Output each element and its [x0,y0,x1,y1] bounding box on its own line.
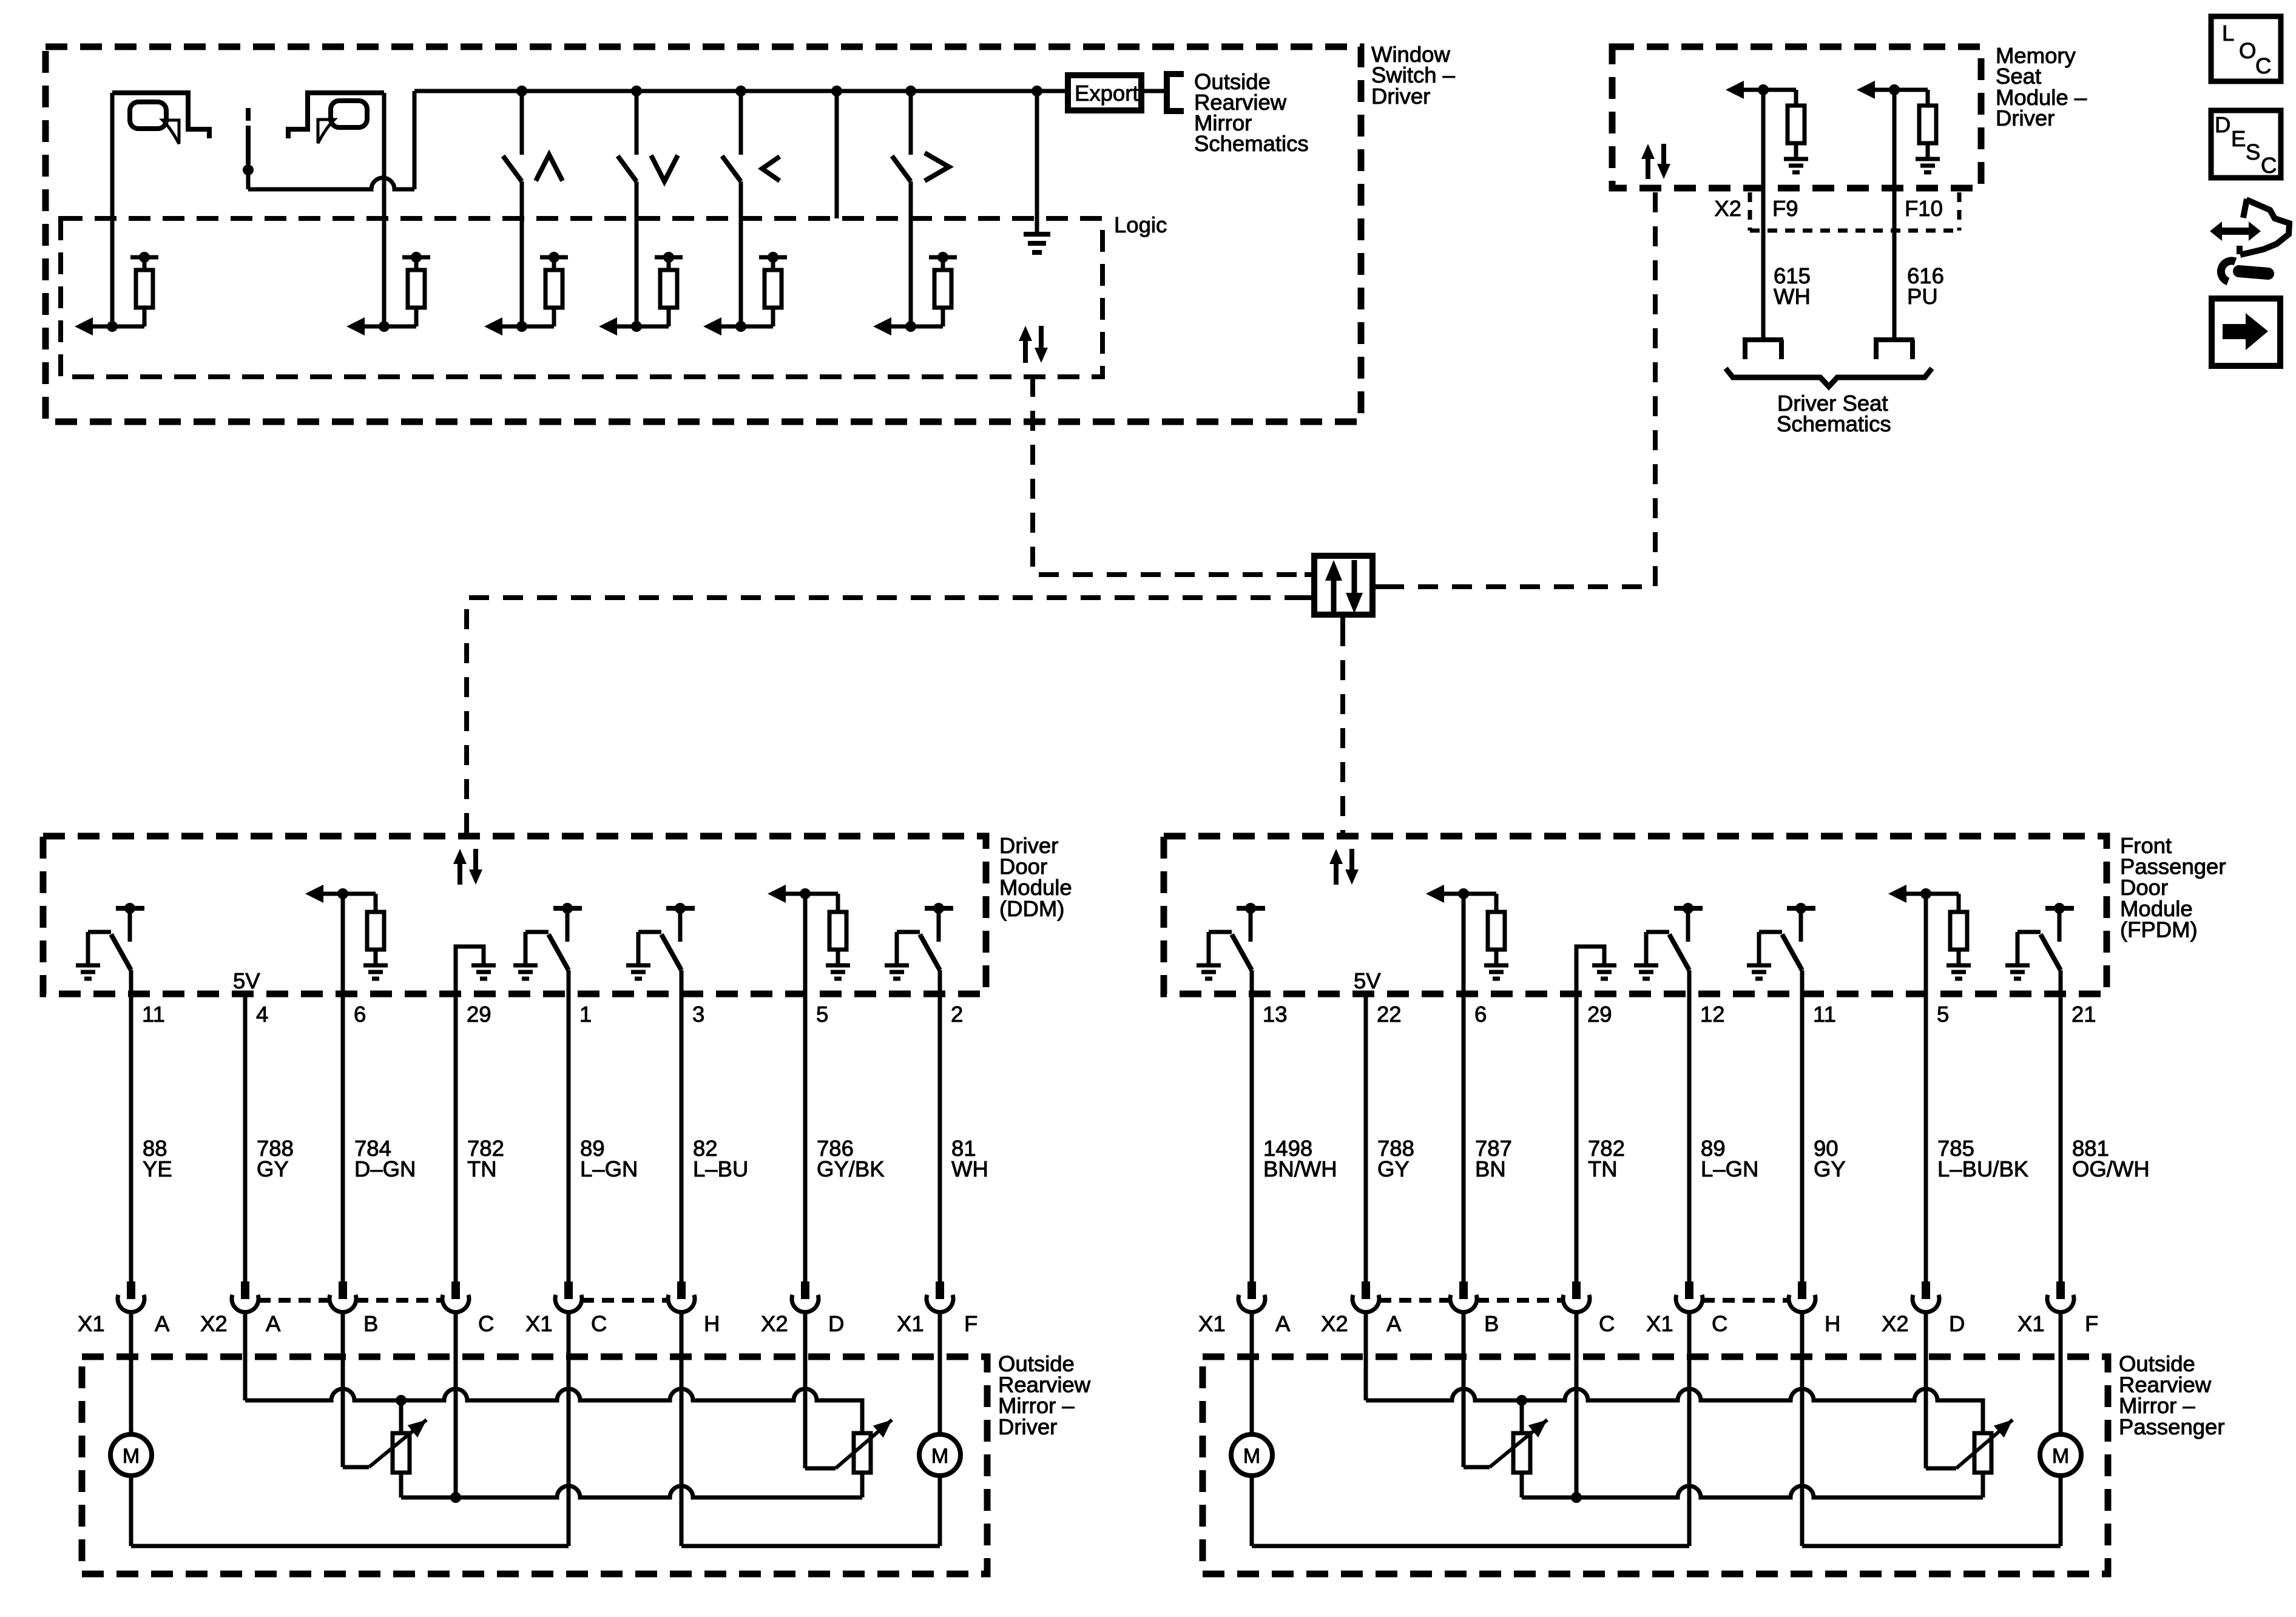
wire mirror M1 left drop [110,93,115,326]
wire A to motor left passenger [1250,1312,1254,1436]
icon hand outline [2240,199,2289,255]
potentiometer right driver wiper arrow [836,1420,892,1468]
wire SW-UP upper [520,91,524,155]
label pin 5 FPDM [1937,1002,1949,1027]
ground FPDM pin 12 [1634,965,1658,979]
arrow out SW-UP [484,317,522,336]
resistor R FPDM pin 6 [1488,912,1505,950]
svg-text:X1: X1 [1198,1311,1226,1336]
label wire 81 WH [951,1136,988,1181]
junction dot SW-LEFT [735,321,746,332]
resistor R-SW-DOWN T-bar [655,252,683,270]
wire ground drop [1035,91,1039,234]
label connector X2 [200,1311,228,1336]
switch DDM pin 1 ground leg [525,932,549,965]
connector arrows Memory Seat [1641,144,1670,179]
junction dot bus SW-RIGHT [905,86,916,96]
resistor R-SW-DOWN body [660,270,677,308]
wire pot-left bottom lead driver [399,1473,403,1497]
svg-text:Driver: Driver [998,1414,1057,1439]
label Outside Rearview Mirror - Passenger [2119,1351,2225,1439]
svg-text:4: 4 [256,1002,268,1027]
connector cup FPDM x2598 [1563,1281,1590,1312]
wire F9-wire to resistor [1763,90,1796,106]
svg-text:X2: X2 [1714,196,1741,221]
junction dot F9-wire [1758,84,1769,95]
ground FPDM pin 29 [1592,965,1616,979]
wire DDM pin 3 [680,970,684,1281]
icon next-page arrow [2223,313,2268,350]
switch SEL blade stub [246,108,251,121]
connector cup FPDM x2251 [1352,1281,1379,1312]
resistor R DDM pin 6 [367,912,384,950]
label Logic [1114,212,1167,237]
icon wrench [2221,261,2268,282]
label Outside Rearview Mirror Schematics [1194,69,1309,156]
wire DDM pin 5 to resistor [805,894,838,912]
label wire 786 GY/BK [817,1136,885,1181]
svg-text:Schematics: Schematics [1194,131,1309,156]
label connector A [1386,1311,1402,1336]
icon LOC letters [2222,21,2271,78]
wire pot-right bottom lead passenger [1981,1473,1985,1497]
label wire 788 GY [1377,1136,1414,1181]
wire H driver [681,1312,940,1546]
junction dot bus stub [831,86,842,96]
svg-text:F: F [2085,1311,2098,1336]
wire mirror M2 right drop [382,93,387,326]
wire F10-wire vertical [1893,90,1897,340]
svg-text:X1: X1 [78,1311,105,1336]
label connector A [266,1311,281,1336]
label wire 89 L–GN [580,1136,638,1181]
wire DDM pin 11 [129,970,133,1281]
wire R-F10-wire to ground [1926,143,1930,159]
wire SW-LEFT upper [739,91,743,155]
resistor R DDM pin 5 [829,912,846,950]
wire DDM pin 1 [567,970,571,1281]
module box: Outside Rearview Mirror - Passenger [1203,1357,2108,1574]
ground FPDM pin 13 [1197,965,1221,979]
wire R-F9-wire to ground [1794,143,1798,159]
wire FPDM pin 13 [1250,970,1254,1281]
ground DDM pin 2 [885,965,909,979]
switch FPDM pin 12 contact [1674,903,1703,942]
svg-text:3: 3 [692,1002,704,1027]
wire FPDM pin 6 to resistor [1464,894,1496,912]
svg-text:D: D [828,1311,844,1336]
resistor R-mirror-M1 node body [136,270,153,308]
ground DDM pin 6 [363,965,388,979]
arrow out DDM pin 5 [768,885,805,903]
wire H passenger [1802,1312,2061,1546]
svg-text:12: 12 [1700,1002,1725,1027]
wire resistor R-SW-LEFT to node [741,308,773,326]
label connector B [363,1311,378,1336]
connector splice arrows [1325,560,1363,613]
wire motor right return driver [938,1475,942,1546]
svg-text:A: A [1275,1311,1291,1336]
wire C passenger [1575,1312,1579,1497]
connector link DDM X2 group [258,1298,442,1303]
wire dashed Logic to splice box [1033,377,1305,575]
label F9 [1772,196,1798,221]
connector arrows Logic [1019,326,1048,363]
wire A2 passenger [1364,1312,1368,1400]
label pin 5 DDM [816,1002,828,1027]
potentiometer left driver wiper arrow [369,1420,427,1467]
label connector X1 [1198,1311,1226,1336]
label wire 782 TN [1588,1136,1625,1181]
icon DESC box [2211,110,2281,178]
junction dot FPDM pin 5 [1920,888,1931,899]
switch SW-UP blade [503,156,522,181]
label connector X2 [761,1311,788,1336]
label wire 785 L–BU/BK [1937,1136,2028,1181]
svg-text:Driver: Driver [1371,84,1430,109]
switch DDM pin 1 blade [549,934,569,970]
switch DDM pin 11 blade [111,934,131,970]
svg-text:YE: YE [143,1156,172,1181]
module box: Driver Door Module (DDM) [43,836,986,994]
svg-text:X2: X2 [761,1311,788,1336]
label connector X1 [525,1311,553,1336]
connector cup FPDM x2970 [1789,1281,1815,1312]
connector arrows Driver Door Module (DDM) [453,849,482,885]
junction dot bus SW-UP [516,86,527,96]
switch DDM pin 2 blade [920,934,940,970]
mirror icon M1 glass [130,102,166,129]
label wire 616 PU [1907,263,1944,309]
wire resistor R-SW-UP to node [522,308,554,326]
label 5V FPDM pin 22 [1354,968,1381,993]
svg-text:5V: 5V [1354,968,1381,993]
svg-text:X2: X2 [1321,1311,1348,1336]
junction dot FPDM pin 6 [1458,888,1469,899]
svg-text:Logic: Logic [1114,212,1167,237]
svg-text:6: 6 [354,1002,366,1027]
ground FPDM pin 5 [1947,965,1971,979]
label wire 788 GY [257,1136,294,1181]
switch SW-LEFT blade [722,156,741,181]
svg-text:22: 22 [1377,1002,1402,1027]
label X2 [1714,196,1741,221]
label Outside Rearview Mirror - Driver [998,1351,1091,1439]
svg-text:H: H [1825,1311,1840,1336]
ground G-F10-wire [1916,159,1940,172]
arrow out SW-LEFT [703,317,741,336]
module box: Window Switch - Driver [46,47,1361,422]
label pin 29 DDM [467,1002,491,1027]
label pin 6 DDM [354,1002,366,1027]
svg-text:GY: GY [1814,1156,1846,1181]
wire FPDM pin 5 to resistor [1926,894,1959,912]
wire motor right return passenger [2059,1475,2063,1546]
label wire 90 GY [1814,1136,1846,1181]
resistor R-SW-LEFT T-bar [759,252,787,270]
connector cup DDM x1549 [927,1281,953,1312]
icon DESC letters [2215,112,2277,178]
potentiometer right driver body [854,1433,871,1473]
wire SEL feed riser [413,91,417,189]
label connector F [964,1311,977,1336]
svg-text:D–GN: D–GN [354,1156,416,1181]
svg-text:X1: X1 [897,1311,924,1336]
label pin 4 DDM [256,1002,268,1027]
switch SW-RIGHT blade [892,156,911,181]
svg-text:C: C [2255,53,2271,78]
wire R DDM pin 6 to ground [374,950,378,965]
mirror icon M2 (right mirror) frame [288,93,384,138]
label connector H [1825,1311,1840,1336]
ground FPDM pin 11 [1747,965,1771,979]
symbol down chevron [651,155,678,181]
wire pot-left bottom lead passenger [1520,1473,1524,1497]
wire F9-wire vertical [1761,90,1766,340]
wire stub to logic [835,91,839,218]
connector link DDM X1 group [582,1298,668,1303]
mirror icon M1 (left mirror) frame [112,93,209,138]
wire DDM pin 6 [341,894,345,1281]
potentiometer right passenger wiper arrow [1956,1420,2013,1468]
switch DDM pin 3 ground leg [638,932,661,965]
wire DDM pin 29 loop [456,947,484,994]
wire FPDM pin 29 [1575,994,1579,1281]
wire R FPDM pin 5 to ground [1957,950,1961,965]
wire SW-UP lower [520,181,524,326]
wire dashed splice to FPDM [1340,626,1345,836]
svg-text:29: 29 [467,1002,491,1027]
potentiometer left passenger wiper arrow [1490,1420,1547,1467]
wire R DDM pin 5 to ground [836,950,840,965]
wire F to motor right driver [938,1312,942,1436]
svg-text:(DDM): (DDM) [999,896,1064,921]
svg-text:X1: X1 [1646,1311,1673,1336]
terminal F10-wire [1874,340,1914,359]
svg-text:TN: TN [467,1156,497,1181]
svg-text:A: A [266,1311,281,1336]
ground DDM pin 5 [826,965,850,979]
resistor R-SW-UP body [545,270,562,308]
module box: Outside Rearview Mirror - Driver [82,1357,987,1574]
wire D driver [805,1312,836,1468]
ground DDM pin 29 [471,965,496,979]
svg-text:A: A [155,1311,170,1336]
ground DDM pin 11 [76,965,100,979]
svg-text:C: C [478,1311,494,1336]
label Memory Seat Module - Driver [1996,43,2087,130]
connector cup FPDM x2063 [1238,1281,1265,1312]
connector arrows Front Passenger Door Module (FPDM) [1329,849,1359,885]
junction dot mirror-M1 node [107,321,118,332]
resistor R-SW-RIGHT body [934,270,951,308]
svg-text:5: 5 [816,1002,828,1027]
wire DDM pin 5 [803,894,808,1281]
switch DDM pin 11 contact [116,903,144,942]
svg-text:S: S [2246,140,2260,164]
junction dot DDM pin 6 [337,888,348,899]
svg-text:L–BU/BK: L–BU/BK [1937,1156,2028,1181]
label pin 11 DDM [142,1002,165,1027]
switch FPDM pin 21 contact [2045,903,2074,942]
wire resistor R-SW-DOWN to node [636,308,669,326]
svg-text:Passenger: Passenger [2119,1414,2225,1439]
switch DDM pin 2 contact [925,903,953,942]
wire F10-wire to resistor [1894,90,1928,106]
wire C2 motor return driver [567,1312,571,1546]
symbol right chevron [925,153,949,181]
junction dot C driver [450,1492,461,1503]
wire resistor R-SW-RIGHT to node [911,308,943,326]
wire FPDM pin 29 loop [1576,947,1604,994]
wire SEL feed with hop over M2 wire [248,178,414,189]
svg-text:13: 13 [1263,1002,1288,1027]
motor M-left passenger [1231,1434,1272,1476]
label pin 13 FPDM [1263,1002,1288,1027]
svg-text:GY: GY [257,1156,289,1181]
svg-text:C: C [591,1311,607,1336]
wire R FPDM pin 6 to ground [1494,950,1499,965]
icon next-page arrow box [2212,299,2280,366]
switch FPDM pin 11 blade [1782,934,1802,970]
label F10 [1905,196,1943,221]
wire lower bus passenger [1522,1486,1983,1497]
junction dot SW-DOWN [631,321,642,332]
label wire 881 OG/WH [2072,1136,2150,1181]
svg-text:C: C [1712,1311,1727,1336]
mirror icon M2 glass [331,101,367,127]
connector cup FPDM x3174 [1913,1281,1939,1312]
svg-text:L–BU: L–BU [693,1156,748,1181]
ground FPDM pin 21 [2005,965,2030,979]
symbol left chevron [762,157,780,181]
connector cup DDM x216 [118,1281,144,1312]
ground DDM pin 1 [513,965,538,979]
junction dot DDM pin 5 [800,888,811,899]
block Export box [1068,75,1141,110]
wire DDM pin 4 [243,994,248,1281]
resistor R-F10-wire body [1919,106,1936,143]
junction dot bus SW-DOWN [631,86,642,96]
label connector X1 [78,1311,105,1336]
svg-text:D: D [1949,1311,1965,1336]
wire motor left return driver [131,1475,569,1546]
module box: Memory Seat Module - Driver [1612,47,1981,188]
arrow out DDM pin 6 [305,885,343,903]
svg-text:O: O [2239,38,2256,63]
svg-text:2: 2 [951,1002,963,1027]
svg-text:BN: BN [1475,1156,1506,1181]
label pin 6 FPDM [1474,1002,1487,1027]
arrow out SW-RIGHT [873,317,911,336]
label pin 2 DDM [951,1002,963,1027]
svg-text:WH: WH [951,1156,988,1181]
label wire 615 WH [1774,263,1811,309]
wire SW-DOWN lower [635,181,639,326]
svg-text:X2: X2 [1882,1311,1909,1336]
wire SW-RIGHT lower [909,181,913,326]
potentiometer left driver body [393,1433,410,1473]
svg-text:H: H [704,1311,720,1336]
label connector X2 [1882,1311,1909,1336]
label wire 1498 BN/WH [1263,1136,1337,1181]
label connector X1 [897,1311,924,1336]
potentiometer right passenger body [1974,1433,1991,1473]
junction dot mirror-M2 node [379,321,390,332]
svg-text:OG/WH: OG/WH [2072,1156,2150,1181]
wire SW-DOWN upper [635,91,639,155]
wire C driver [454,1312,458,1497]
label Front Passenger Door Module (FPDM) [2120,833,2226,942]
switch DDM pin 2 ground leg [897,932,920,965]
label Driver Door Module (DDM) [999,833,1072,921]
label pin 12 FPDM [1700,1002,1725,1027]
motor M-right driver [919,1434,961,1476]
wire DDM pin 2 [938,970,942,1281]
label pin 29 FPDM [1587,1002,1612,1027]
resistor R-F9-wire body [1788,106,1805,143]
wire FPDM pin 5 [1924,894,1928,1281]
svg-text:M: M [931,1445,948,1468]
wire SW-RIGHT upper [909,91,913,155]
terminal F9-wire [1743,340,1783,359]
label pin 21 FPDM [2071,1002,2096,1027]
connector splice box [1314,556,1373,615]
arrow out F10-wire [1857,81,1894,99]
svg-text:C: C [2261,153,2277,178]
switch DDM pin 3 contact [666,903,695,942]
label connector C [591,1311,607,1336]
wire motor left return passenger [1252,1475,1689,1546]
resistor R-SW-LEFT body [765,270,782,308]
arrow out mirror-M1 node [75,317,112,336]
wire SEL pole down [246,175,251,189]
mirror icon M1 tail [163,120,179,144]
wire pot-left top lead passenger [1520,1400,1524,1433]
wire dashed splice to memory seat [1384,188,1655,587]
connector link FPDM X1 group [1703,1298,1789,1303]
junction dot F10-wire [1889,84,1900,95]
svg-text:B: B [363,1311,378,1336]
label Export [1075,81,1139,106]
module box: Front Passenger Door Module (FPDM) [1164,836,2107,994]
wire upper bus driver [245,1389,862,1433]
svg-text:L: L [2222,21,2234,46]
arrow out F9-wire [1726,81,1763,99]
label wire 89 L–GN [1701,1136,1758,1181]
wire SW-LEFT lower [739,181,743,326]
connector cup FPDM x2412 [1450,1281,1477,1312]
label pin 11 FPDM [1813,1002,1836,1027]
junction dot bus ground drop [1032,86,1042,96]
label connector X1 [2017,1311,2045,1336]
wire upper bus passenger [1366,1389,1983,1433]
switch FPDM pin 13 ground leg [1209,932,1232,965]
svg-text:21: 21 [2071,1002,2096,1027]
label connector X2 [1321,1311,1348,1336]
switch FPDM pin 12 ground leg [1646,932,1669,965]
wire dashed DDM riser [467,598,1305,836]
svg-text:F10: F10 [1905,196,1943,221]
symbol up chevron [536,155,562,181]
svg-text:GY/BK: GY/BK [817,1156,885,1181]
label connector C [1712,1311,1727,1336]
wire FPDM pin 12 [1687,970,1692,1281]
wire B driver [343,1312,369,1467]
label connector A [1275,1311,1291,1336]
svg-text:WH: WH [1774,284,1811,309]
arrow out FPDM pin 6 [1426,885,1464,903]
